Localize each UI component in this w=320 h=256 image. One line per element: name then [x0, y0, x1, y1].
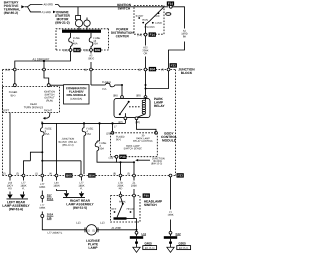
wire L7D to headlamp switch — [120, 162, 122, 174]
wire Z1 14BK to G300 — [170, 177, 172, 210]
wire pin30 to BCM — [137, 120, 157, 132]
wire Z1 20BK from license lamp — [97, 229, 137, 231]
wire L77 right park — [81, 177, 83, 181]
bus bar B+ — [62, 30, 101, 33]
splice L11 — [135, 231, 138, 234]
wire left park feed L77 — [41, 151, 43, 153]
engine starter motor label — [57, 11, 69, 13]
fuse 5 15A — [41, 122, 43, 124]
ignition run output terminal — [44, 71, 49, 84]
wire fuse4 output A1 — [15, 51, 71, 68]
splice S17 connector 201A — [41, 196, 44, 199]
BCM bottom pin — [109, 157, 113, 159]
headlamp switch ground strip — [114, 217, 127, 219]
wire A1 6RD to starter — [42, 11, 51, 13]
wire fuse4 down — [83, 138, 85, 175]
wire Z1 14BK to G400 — [136, 219, 138, 237]
license plate lamp — [76, 222, 80, 224]
rear turn signals box — [3, 86, 60, 88]
battery output arrow — [21, 5, 24, 8]
relay pins bottom — [124, 117, 127, 120]
fuse 13 20A — [90, 33, 92, 36]
power distribution center box — [56, 29, 109, 50]
ground eyelet G300 — [164, 236, 177, 239]
wire left turn output — [9, 113, 11, 175]
PDC connector pins — [63, 49, 67, 51]
park lamp relay label — [154, 98, 163, 100]
cavity F33 — [161, 69, 164, 71]
wire fuse3 output — [97, 153, 117, 163]
headlamp switch label — [144, 200, 162, 202]
wire L77 18BK/YL — [40, 183, 44, 185]
node on A1 wire — [43, 60, 45, 62]
junction block label top right — [178, 68, 194, 70]
fuse 4 15A — [83, 122, 85, 124]
right rear lamp assembly label — [70, 200, 90, 202]
wire right turn output hook — [45, 113, 50, 119]
wire right turn to lamp — [56, 123, 58, 174]
BCM pin labels — [116, 136, 124, 138]
wire battery split — [25, 6, 28, 8]
fuse 4 40A — [70, 33, 72, 36]
license plate lamp label — [86, 240, 100, 242]
wire from BCM pin to headlamp feed — [117, 158, 135, 162]
rear turn signals label — [30, 103, 37, 105]
wire L7 bus — [124, 120, 126, 124]
ground eyelet G400 — [130, 236, 143, 239]
wire to relay pin 86 — [121, 84, 123, 86]
splice G12 — [169, 231, 172, 234]
wire labels into headlamp switch — [118, 182, 122, 184]
headlamp switch contacts — [119, 201, 125, 203]
body control module label — [165, 132, 174, 134]
ground symbol G400 — [136, 244, 138, 247]
junction block label center — [62, 138, 74, 140]
wire L63 left turn — [9, 177, 11, 181]
relay coil — [145, 97, 147, 100]
wire A2 from fuse 13 — [90, 51, 92, 53]
wire to BCM fused B+ — [111, 122, 113, 124]
junction block pointer label — [135, 159, 138, 161]
connector 202A L16 — [41, 215, 44, 218]
ignition switch bottom connector F14 — [138, 34, 142, 36]
wire L77 license trunk — [41, 177, 43, 182]
wire L60 right turn — [56, 177, 58, 181]
cavity 14 — [5, 69, 9, 71]
ignition switch label — [117, 4, 131, 6]
left rear lamp assembly label — [7, 201, 25, 203]
relay switch contact — [119, 113, 121, 115]
fused B+ terminal — [14, 71, 16, 84]
battery positive terminal label — [4, 1, 18, 3]
combination flasher DRL module — [64, 85, 90, 104]
wire A22 from ignition switch down — [145, 36, 147, 46]
F14 junction block cavity top right — [167, 1, 174, 5]
wire Z1 from headlamp switch — [133, 162, 135, 174]
wire L77 to license lamp — [42, 218, 86, 230]
left rear lamp arrows — [7, 195, 12, 199]
ignition switch contacts — [136, 15, 144, 17]
right rear lamp arrows — [64, 193, 69, 197]
wire run/F33 to relay pin 85 — [145, 71, 147, 85]
engine starter motor symbol — [77, 7, 79, 16]
wire right park feed — [41, 160, 43, 162]
headlamp switch box — [111, 196, 141, 223]
wire run to flasher — [50, 84, 63, 86]
power distribution center label — [116, 28, 128, 30]
junction block dashed box — [3, 69, 176, 71]
wire A2 18RD from F14 down — [172, 7, 184, 29]
body control module box — [111, 133, 158, 157]
JB bottom connectors — [3, 173, 6, 175]
wire L77 left park — [23, 177, 25, 181]
wire A0 6RD to ignition switch — [44, 4, 53, 6]
park lamp relay box — [114, 98, 150, 117]
fuse 8 15A inline — [102, 81, 110, 83]
ignition switch box — [134, 6, 164, 35]
fuse 3 10A — [98, 122, 100, 124]
relay pins top — [113, 94, 117, 96]
wire L77 trunk below fuse 5 — [41, 138, 43, 175]
ground symbol G300 — [170, 244, 172, 247]
cavity B34 — [138, 69, 141, 71]
